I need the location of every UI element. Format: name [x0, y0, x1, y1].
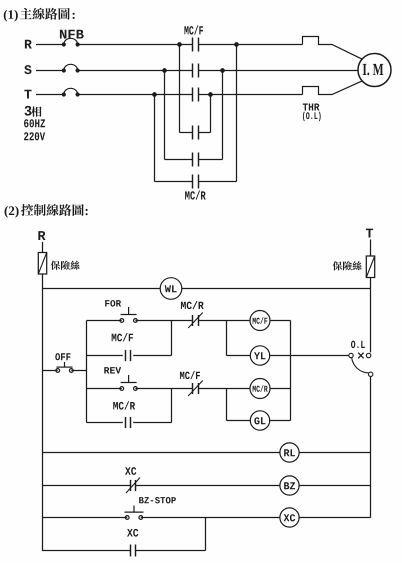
title (2) control circuit diagram: [5, 204, 88, 218]
fuse F1 left: [38, 253, 46, 275]
wire XC NC to buzzer BZ: [136, 485, 280, 487]
left rail R: [42, 274, 44, 551]
wire RL row right: [299, 452, 370, 454]
wire MC/F holding row right: [133, 355, 171, 357]
coil box right vertical: [290, 321, 292, 421]
coil MC/R: [250, 379, 270, 399]
wire R rail above fuse: [42, 242, 44, 253]
contactor MC/R label: [185, 191, 206, 200]
contactor MC/R contact row2: [193, 153, 199, 167]
contactor MC/F contact phase S: [193, 64, 199, 78]
junction dot R output: [234, 42, 239, 47]
right rail T upper segment: [370, 278, 372, 353]
overload relay THR label: [303, 104, 321, 122]
auxiliary contact XC holding label: [127, 529, 138, 537]
auxiliary contact MC/R NC label: [181, 301, 204, 309]
wire OFF to branch point: [71, 370, 86, 372]
FOR box right vertical: [171, 321, 173, 356]
title (1) main circuit diagram: [4, 8, 75, 22]
vertical wire R input to MC/R row1: [179, 45, 181, 133]
overload contact O.L changeover: [349, 353, 373, 377]
contactor MC/F contact phase T: [193, 88, 199, 102]
overload heater THR phase T: [303, 81, 363, 95]
contactor MC/F contact phase R: [193, 38, 199, 52]
auxiliary contact MC/R holding label: [113, 401, 135, 409]
coil box left vertical upper: [226, 321, 228, 356]
auxiliary contact MC/F holding: [126, 350, 131, 361]
auxiliary contact XC holding: [131, 545, 136, 557]
buzzer BZ: [280, 476, 299, 495]
auxiliary contact MC/F holding label: [112, 333, 133, 341]
wire REV row to MC/F NC contact: [172, 388, 193, 390]
lamp YL: [250, 346, 269, 365]
wire BZ-STOP to relay XC: [141, 517, 280, 519]
wire coil MC/R to right vertical: [270, 388, 291, 390]
auxiliary contact XC NC label: [125, 467, 136, 475]
wire MC/R row3 right: [199, 181, 237, 183]
pushbutton OFF (NC): [56, 362, 73, 372]
wire BZ row right: [299, 485, 370, 487]
node T label control: [366, 229, 373, 238]
vertical wire R output to MC/R row3: [236, 45, 238, 182]
pushbutton FOR (NO) label: [105, 300, 121, 307]
lamp RL: [280, 443, 299, 462]
wire bottom row right: [136, 550, 206, 552]
wire XC row left: [43, 517, 128, 519]
contactor MC/F label: [184, 25, 203, 34]
auxiliary contact MC/F NC label: [180, 371, 200, 379]
motor I.M: [358, 54, 391, 87]
wire MC/R holding row left: [87, 422, 123, 424]
vertical wire bottom row to XC row: [205, 518, 207, 551]
pushbutton REV (NO): [120, 375, 137, 390]
vertical wire T output to MC/R row1: [210, 95, 212, 133]
wire GL row right: [270, 420, 291, 422]
wire MC/R holding row right: [133, 422, 171, 424]
wire RL row left: [43, 452, 281, 454]
junction dot S output: [220, 68, 225, 73]
wire MC/R row1 right: [199, 132, 211, 134]
vertical wire S input to MC/R row2: [164, 71, 166, 160]
wire OFF row from rail: [43, 370, 58, 372]
breaker NFB label: [60, 30, 84, 39]
node T label: [24, 90, 31, 99]
breaker NFB pole R: [62, 38, 80, 46]
pushbutton REV (NO) label: [104, 367, 121, 373]
junction dot S input: [162, 68, 167, 73]
fuse F1 label baoxiansi: [51, 261, 80, 270]
wire MC/R NC to coil MC/F: [199, 320, 251, 322]
vertical wire S output to MC/R row2: [222, 71, 224, 160]
overload heater THR phase R: [303, 37, 363, 60]
wire MC/R row2 right: [199, 159, 223, 161]
overload contact O.L label: [351, 341, 365, 348]
wire MC/F NC to coil MC/R: [199, 388, 251, 390]
wire phase R left stub: [36, 44, 64, 46]
wire phase T to THR: [199, 94, 303, 96]
contactor MC/R contact row1: [193, 126, 199, 140]
contactor MC/R contact row3: [193, 175, 199, 189]
node R label: [25, 40, 32, 49]
auxiliary contact MC/R holding: [126, 417, 131, 428]
wire bottom row left: [43, 550, 131, 552]
wire MC/R row2 left: [165, 159, 193, 161]
wire phase S to MC/F contact: [78, 70, 193, 72]
fuse F2 label baoxiansi: [333, 261, 362, 270]
wire MC/R row3 left: [155, 181, 193, 183]
node R label control: [38, 231, 45, 240]
wire MC/R row1 left: [180, 132, 193, 134]
label 3-phase: [25, 106, 42, 117]
wire MC/F holding row left: [87, 355, 123, 357]
right rail T lower segment: [370, 377, 372, 518]
label 60HZ: [24, 119, 45, 127]
wire phase T left stub: [36, 94, 64, 96]
wire WL row right: [181, 288, 370, 290]
wire phase S to motor: [199, 70, 359, 72]
node S label: [24, 65, 31, 74]
wire T rail above fuse: [370, 240, 372, 257]
pushbutton BZ-STOP label: [139, 497, 176, 503]
wire phase T to MC/F contact: [78, 94, 193, 96]
wire REV row from branch: [87, 388, 122, 390]
junction dot T input: [152, 92, 157, 97]
junction dot T output: [208, 92, 213, 97]
auxiliary contact MC/F NC (interlock): [188, 381, 203, 397]
pushbutton OFF label: [55, 353, 70, 360]
wire FOR row from branch: [87, 320, 122, 322]
wire REV to box right: [135, 388, 171, 390]
relay XC: [280, 508, 299, 527]
auxiliary contact XC NC: [126, 478, 140, 494]
junction dot R input: [177, 42, 182, 47]
fuse F2 right: [366, 256, 374, 278]
wire YL row left: [227, 355, 251, 357]
wire coil MC/F to right vertical: [270, 320, 291, 322]
left branch vertical: [86, 321, 88, 423]
wire FOR to box right: [135, 320, 171, 322]
wire XC row right: [299, 517, 370, 519]
coil MC/F: [250, 311, 270, 331]
coil box left vertical lower: [226, 389, 228, 421]
breaker NFB pole T: [62, 88, 80, 96]
wire YL row to O.L contact: [270, 355, 349, 357]
label 220V: [24, 132, 45, 140]
lamp GL: [250, 411, 269, 430]
auxiliary contact MC/R NC (interlock): [188, 313, 203, 329]
wire FOR row to MC/R NC contact: [172, 320, 193, 322]
wire BZ row left: [43, 485, 131, 487]
lamp WL: [160, 278, 182, 300]
pushbutton FOR (NO): [120, 307, 137, 322]
pushbutton BZ-STOP (NC): [125, 506, 144, 520]
wire WL row left: [43, 288, 161, 290]
breaker NFB pole S: [62, 64, 80, 72]
wire phase R to THR: [199, 44, 303, 46]
wire phase S left stub: [36, 70, 64, 72]
vertical wire T input to MC/R row3: [154, 95, 156, 182]
REV box right vertical: [171, 389, 173, 423]
wire phase R to MC/F contact: [78, 44, 193, 46]
wire GL row left: [227, 420, 251, 422]
